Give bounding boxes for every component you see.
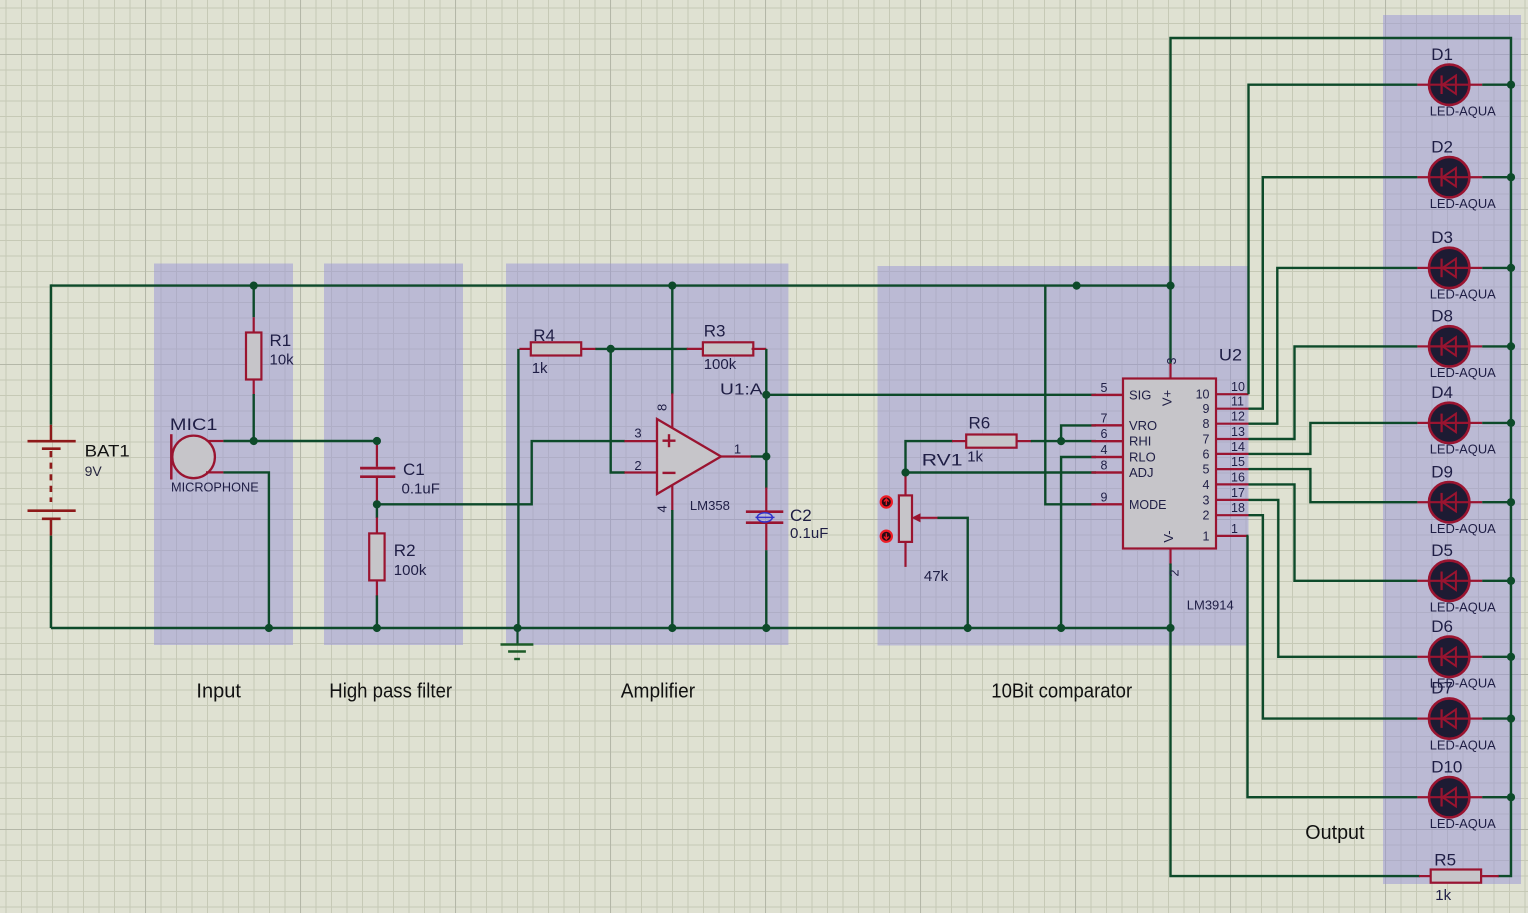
label U1:A — [720, 381, 763, 398]
pin label V- — [1161, 530, 1176, 542]
wire V+ power rail — [51, 284, 1171, 286]
svg-text:2: 2 — [1203, 509, 1210, 523]
wire ground to R5 — [1171, 628, 1420, 876]
section box Amplifier — [506, 264, 788, 646]
node R4 ground junction — [0, 0, 1, 1]
label Output — [1305, 822, 1365, 844]
pin name MODE — [1129, 497, 1167, 512]
svg-text:LM3914: LM3914 — [1187, 599, 1234, 613]
svg-text:LED-AQUA: LED-AQUA — [1430, 816, 1496, 831]
pin number 1 U2 outside — [1231, 522, 1238, 536]
section box High pass filter — [324, 264, 463, 646]
pin stub 13 U2 right — [1216, 438, 1249, 440]
svg-text:4: 4 — [1101, 443, 1108, 457]
svg-text:LM358: LM358 — [690, 499, 730, 513]
svg-text:1: 1 — [1203, 529, 1210, 543]
svg-text:100k: 100k — [394, 562, 427, 579]
pin number 2 op-amp — [634, 458, 641, 473]
label U2 — [1219, 345, 1242, 364]
wire D7 to rail — [1482, 717, 1511, 719]
label D3 — [1431, 228, 1453, 247]
svg-text:Amplifier: Amplifier — [621, 681, 696, 703]
wire D10 to rail — [1482, 796, 1511, 798]
svg-text:Output: Output — [1305, 822, 1365, 844]
op-amp U1 — [657, 419, 721, 494]
label D6 — [1431, 617, 1453, 636]
svg-text:SIG: SIG — [1129, 388, 1151, 403]
wire R6 to RHI — [1017, 440, 1123, 442]
wire D8 to rail — [1482, 345, 1511, 347]
svg-text:10: 10 — [1196, 388, 1210, 402]
pin number 6 U2 — [1101, 427, 1108, 441]
pin label V+ — [1160, 390, 1175, 406]
resistor R6 — [966, 435, 1016, 448]
svg-text:7: 7 — [1101, 411, 1108, 425]
svg-text:RLO: RLO — [1129, 450, 1156, 465]
node D9 rail junction — [0, 0, 1, 1]
svg-text:4: 4 — [655, 505, 670, 512]
svg-text:U2: U2 — [1219, 345, 1242, 364]
svg-text:3: 3 — [1165, 357, 1179, 364]
LED D6 — [1417, 637, 1482, 677]
svg-text:5: 5 — [1101, 381, 1108, 395]
svg-text:7: 7 — [1203, 432, 1210, 446]
pin name ADJ — [1129, 465, 1154, 480]
svg-text:LED-AQUA: LED-AQUA — [1430, 287, 1496, 302]
svg-text:4: 4 — [1203, 478, 1210, 492]
wire ADJ wire — [906, 471, 1124, 473]
pin number 1 op-amp — [734, 442, 741, 457]
node wiper ground junction — [0, 0, 1, 1]
resistor R2 — [369, 533, 384, 580]
pin stub 12 U2 right — [1216, 423, 1249, 425]
label RV1 — [922, 451, 963, 470]
node power-R1 junction — [0, 0, 1, 1]
pin number 10 U2 outside — [1231, 380, 1245, 394]
node MIC1 ground junction — [0, 0, 1, 1]
wire battery negative lead — [50, 536, 52, 628]
svg-text:2: 2 — [634, 458, 641, 473]
svg-text:LED-AQUA: LED-AQUA — [1430, 196, 1496, 211]
node RHI junction — [0, 0, 1, 1]
value 1k R5 — [1435, 887, 1451, 904]
LED D3 — [1417, 248, 1482, 288]
LED D1 — [1417, 65, 1482, 105]
svg-text:13: 13 — [1231, 425, 1245, 439]
svg-text:D5: D5 — [1431, 541, 1453, 560]
svg-text:D9: D9 — [1431, 462, 1453, 481]
LED D5 — [1417, 561, 1482, 601]
value 0.1uF C2 — [790, 525, 828, 542]
svg-text:2: 2 — [1168, 569, 1182, 576]
svg-text:D2: D2 — [1431, 137, 1453, 156]
svg-text:R5: R5 — [1434, 851, 1456, 870]
svg-text:D6: D6 — [1431, 617, 1453, 636]
svg-text:6: 6 — [1203, 447, 1210, 461]
node D6 rail junction — [0, 0, 1, 1]
wire C2 to ground — [765, 550, 767, 628]
pin number 7 U2 inside — [1203, 432, 1210, 446]
LED D10 — [1417, 777, 1482, 817]
node D10 rail junction — [0, 0, 1, 1]
svg-text:LED-AQUA: LED-AQUA — [1430, 365, 1496, 380]
svg-text:High pass filter: High pass filter — [329, 681, 452, 703]
label C1 — [403, 460, 425, 479]
pin stub 1 U2 right — [1216, 535, 1249, 537]
label D9 — [1431, 462, 1453, 481]
wire pin1-D10 — [1248, 536, 1418, 797]
potentiometer RV1 — [899, 473, 939, 567]
wire op-amp pin1 output — [721, 455, 766, 457]
svg-text:LED-AQUA: LED-AQUA — [1430, 104, 1496, 119]
svg-text:14: 14 — [1231, 440, 1245, 454]
svg-text:1k: 1k — [532, 360, 548, 377]
LED D2 — [1417, 157, 1482, 197]
wire D1 to rail — [1482, 83, 1511, 85]
wire D3 to rail — [1482, 267, 1511, 269]
value 1k R6 — [967, 448, 983, 465]
pin number 9 U2 — [1101, 490, 1108, 504]
value LED-AQUA D9 — [1430, 521, 1496, 536]
label BAT1 — [85, 441, 130, 460]
wire pin18-D7 — [1249, 515, 1418, 718]
value LED-AQUA D8 — [1430, 365, 1496, 380]
pin stub VRO U2 — [1091, 424, 1123, 426]
svg-text:10Bit comparator: 10Bit comparator — [991, 681, 1132, 703]
wire battery positive lead — [50, 284, 52, 440]
wire pin17-D6 — [1249, 500, 1418, 657]
label D8 — [1431, 307, 1453, 326]
value LED-AQUA D3 — [1430, 287, 1496, 302]
pin number 11 U2 outside — [1231, 395, 1244, 409]
svg-text:10k: 10k — [270, 351, 295, 368]
wire R4 to R3 — [581, 348, 703, 350]
svg-text:D10: D10 — [1431, 757, 1462, 776]
wire MIC1 bottom to ground — [223, 472, 269, 628]
svg-text:9: 9 — [1203, 402, 1210, 416]
wire op-amp pin3 stub — [624, 440, 657, 442]
wire VRO link — [1061, 425, 1123, 441]
pin number 4 U2 — [1101, 443, 1108, 457]
pin number 8 U2 — [1101, 459, 1108, 473]
resistor R3 — [703, 342, 753, 355]
resistor R5 — [1431, 870, 1481, 883]
pin name RHI — [1129, 434, 1151, 449]
svg-text:MIC1: MIC1 — [170, 415, 218, 434]
wire RLO to ground — [1061, 457, 1123, 628]
node U2 ground junction — [0, 0, 1, 1]
pin number 6 U2 inside — [1203, 447, 1210, 461]
node pot top junction — [0, 0, 1, 1]
pin number 3 op-amp — [634, 426, 641, 441]
svg-text:1: 1 — [1231, 522, 1238, 536]
value MICROPHONE — [171, 480, 259, 494]
node D1 rail junction — [0, 0, 1, 1]
section box Output — [1383, 15, 1521, 884]
LED D7 — [1417, 698, 1482, 738]
svg-text:D4: D4 — [1431, 383, 1453, 402]
svg-text:D3: D3 — [1431, 228, 1453, 247]
pin number 15 U2 outside — [1231, 455, 1245, 469]
value 10k — [270, 351, 295, 368]
svg-text:16: 16 — [1231, 470, 1245, 484]
wire feedback to op-amp pin2 — [611, 349, 657, 473]
wire R2 top lead — [376, 504, 378, 534]
pin stub 14 U2 right — [1216, 453, 1249, 455]
value 0.1uF C1 — [402, 480, 440, 497]
node D5 rail junction — [0, 0, 1, 1]
svg-text:3: 3 — [634, 426, 641, 441]
svg-text:R4: R4 — [533, 326, 555, 345]
pin number 13 U2 outside — [1231, 425, 1245, 439]
LED D9 — [1417, 482, 1482, 522]
wire D5 to rail — [1482, 580, 1511, 582]
wire C1 to op-amp input — [377, 441, 625, 504]
wire D4 to rail — [1482, 422, 1511, 424]
battery BAT1 — [28, 441, 76, 535]
label High pass filter — [329, 681, 452, 703]
svg-text:1k: 1k — [1435, 887, 1451, 904]
node pin8 power junction — [0, 0, 1, 1]
junction dots layer — [250, 81, 1516, 802]
svg-text:8: 8 — [655, 404, 670, 411]
wire pin15-D9 — [1249, 469, 1418, 502]
svg-text:D7: D7 — [1431, 679, 1453, 698]
label D7 — [1431, 679, 1453, 698]
pin number 2 U2 inside — [1203, 509, 1210, 523]
pin number 12 U2 outside — [1231, 410, 1245, 424]
pin stub RLO U2 — [1091, 456, 1123, 458]
value 9V — [85, 463, 103, 479]
node D4 rail junction — [0, 0, 1, 1]
svg-text:MODE: MODE — [1129, 497, 1167, 512]
svg-text:RV1: RV1 — [922, 451, 963, 470]
value LED-AQUA D1 — [1430, 104, 1496, 119]
pin number 9 U2 inside — [1203, 402, 1210, 416]
node R1-MIC junction — [0, 0, 1, 1]
node rail-top junction — [0, 0, 1, 1]
svg-text:LED-AQUA: LED-AQUA — [1430, 600, 1496, 615]
pin number 10 U2 inside — [1196, 388, 1210, 402]
capacitor C2 — [746, 512, 783, 551]
resistor R1 — [246, 333, 261, 380]
pin number 18 U2 outside — [1231, 501, 1245, 515]
pin number 5 U2 inside — [1203, 463, 1210, 477]
label MIC1 — [170, 415, 218, 434]
pin number 4 U2 inside — [1203, 478, 1210, 492]
wire pin16-D5 — [1249, 484, 1418, 580]
svg-text:R1: R1 — [270, 331, 292, 350]
wire pin11-D2 — [1249, 177, 1418, 409]
pin stub SIG U2 — [1091, 394, 1123, 396]
pin stub 17 U2 right — [1216, 499, 1249, 501]
svg-text:Input: Input — [196, 681, 241, 703]
IC U2 LM3914 body — [1123, 379, 1216, 549]
pin name RLO — [1129, 450, 1156, 465]
pin number 8 U2 inside — [1203, 417, 1210, 431]
svg-text:D8: D8 — [1431, 307, 1453, 326]
svg-text:0.1uF: 0.1uF — [402, 480, 440, 497]
svg-text:15: 15 — [1231, 455, 1245, 469]
svg-text:VRO: VRO — [1129, 418, 1157, 433]
node D2 rail junction — [0, 0, 1, 1]
wire U2 pin2 ground — [1169, 549, 1171, 629]
node U1:A output node — [0, 0, 1, 1]
node D3 rail junction — [0, 0, 1, 1]
pot adjust button down — [881, 531, 892, 542]
svg-text:C1: C1 — [403, 460, 425, 479]
LED D4 — [1417, 403, 1482, 443]
svg-text:BAT1: BAT1 — [85, 441, 130, 460]
svg-text:18: 18 — [1231, 501, 1245, 515]
wire U1:A output to SIG — [766, 394, 1123, 396]
label C2 — [790, 506, 812, 525]
pin number 17 U2 outside — [1231, 486, 1245, 500]
value LED-AQUA D6 — [1430, 676, 1496, 691]
svg-text:1: 1 — [734, 442, 741, 457]
value LED-AQUA D2 — [1430, 196, 1496, 211]
svg-text:RHI: RHI — [1129, 434, 1151, 449]
svg-text:11: 11 — [1231, 395, 1244, 409]
wire V+ to LED rail — [1171, 38, 1512, 876]
wire ground rail — [51, 627, 1171, 629]
node R2 ground junction — [0, 0, 1, 1]
node D7 rail junction — [0, 0, 1, 1]
svg-text:R2: R2 — [394, 541, 416, 560]
pin name SIG — [1129, 388, 1151, 403]
wire pot wiper to ground — [938, 518, 968, 628]
pot adjust button up — [881, 496, 892, 507]
node R4-R3 junction — [0, 0, 1, 1]
wire pin14-D4 — [1249, 423, 1418, 454]
svg-text:R6: R6 — [969, 413, 991, 432]
pin name VRO — [1129, 418, 1157, 433]
pin stub ADJ U2 — [1091, 471, 1123, 473]
pin stub MODE U2 — [1091, 503, 1123, 505]
label R4 — [533, 326, 555, 345]
label D10 — [1431, 757, 1462, 776]
svg-text:10: 10 — [1231, 380, 1245, 394]
label Amplifier — [621, 681, 696, 703]
node C1-R2 junction — [0, 0, 1, 1]
pin stub 10 U2 right — [1216, 393, 1249, 395]
wire MODE from V+ rail — [1045, 286, 1123, 505]
node rail dot — [0, 0, 1, 1]
label Input — [196, 681, 241, 703]
label R1 — [270, 331, 292, 350]
label R3 — [704, 322, 726, 341]
svg-text:MICROPHONE: MICROPHONE — [171, 480, 259, 494]
wire R5 left stub — [1419, 875, 1432, 877]
value LM358 — [690, 499, 730, 513]
svg-text:ADJ: ADJ — [1129, 465, 1154, 480]
svg-text:LED-AQUA: LED-AQUA — [1430, 442, 1496, 457]
svg-text:5: 5 — [1203, 463, 1210, 477]
svg-text:LED-AQUA: LED-AQUA — [1430, 521, 1496, 536]
value LM3914 — [1187, 599, 1234, 613]
pin stub 11 U2 right — [1216, 408, 1249, 410]
svg-text:3: 3 — [1203, 493, 1210, 507]
pin number 1 U2 inside — [1203, 529, 1210, 543]
svg-text:100k: 100k — [704, 356, 737, 373]
svg-text:V+: V+ — [1160, 390, 1175, 406]
pin number 3 U2 — [1165, 357, 1179, 364]
pin stub 18 U2 right — [1216, 514, 1249, 516]
svg-text:V-: V- — [1161, 530, 1176, 542]
ground symbol — [501, 628, 534, 659]
svg-text:6: 6 — [1101, 427, 1108, 441]
label D2 — [1431, 137, 1453, 156]
microphone MIC1 — [171, 434, 223, 479]
wire U2 pin3 V+ — [1169, 286, 1171, 379]
pin stub 16 U2 right — [1216, 483, 1249, 485]
wire pin10-D1 — [1249, 85, 1418, 395]
label R5 — [1434, 851, 1456, 870]
wire pot top to R6 — [906, 441, 968, 472]
node pin4 ground junction — [0, 0, 1, 1]
label 10Bit comparator — [991, 681, 1132, 703]
pin number 3 U2 inside — [1203, 493, 1210, 507]
value 47k — [924, 568, 949, 585]
value LED-AQUA D10 — [1430, 816, 1496, 831]
svg-text:8: 8 — [1203, 417, 1210, 431]
value LED-AQUA D5 — [1430, 600, 1496, 615]
value LED-AQUA D4 — [1430, 442, 1496, 457]
svg-text:0.1uF: 0.1uF — [790, 525, 828, 542]
value 100k R3 — [704, 356, 737, 373]
pin number 7 U2 — [1101, 411, 1108, 425]
wire D9 to rail — [1482, 501, 1511, 503]
capacitor C1 — [360, 441, 395, 504]
pin stub RHI U2 — [1091, 440, 1123, 442]
svg-text:17: 17 — [1231, 486, 1245, 500]
wire output to C2 — [765, 395, 767, 511]
pin number 2 U2 — [1168, 569, 1182, 576]
wire R1 bottom lead — [253, 379, 255, 441]
wire R2 bottom lead — [376, 580, 378, 628]
label D5 — [1431, 541, 1453, 560]
wire pin13-D8 — [1249, 346, 1418, 439]
wire D2 to rail — [1482, 176, 1511, 178]
svg-text:D1: D1 — [1431, 45, 1453, 64]
value 1k R4 — [532, 360, 548, 377]
section box 10Bit comparator — [878, 266, 1249, 646]
node C1 top junction — [0, 0, 1, 1]
resistor R4 — [531, 342, 581, 355]
svg-text:47k: 47k — [924, 568, 949, 585]
node C2 ground junction — [0, 0, 1, 1]
label R6 — [969, 413, 991, 432]
svg-text:8: 8 — [1101, 459, 1108, 473]
pin stub 15 U2 right — [1216, 468, 1249, 470]
label D1 — [1431, 45, 1453, 64]
wire MIC1 top to C1 — [223, 440, 377, 442]
wire op-amp pin4 ground — [671, 486, 673, 629]
svg-text:1k: 1k — [967, 448, 983, 465]
svg-text:U1:A: U1:A — [720, 381, 763, 398]
pin number 8 op-amp — [655, 404, 670, 411]
node D8 rail junction — [0, 0, 1, 1]
pin number 16 U2 outside — [1231, 470, 1245, 484]
svg-text:R3: R3 — [704, 322, 726, 341]
svg-text:C2: C2 — [790, 506, 812, 525]
wire pin12-D3 — [1249, 268, 1418, 424]
wire R4 left lead to ground — [518, 349, 531, 628]
pin number 4 op-amp — [655, 505, 670, 512]
label R2 — [394, 541, 416, 560]
pin number 14 U2 outside — [1231, 440, 1245, 454]
value LED-AQUA D7 — [1430, 737, 1496, 752]
